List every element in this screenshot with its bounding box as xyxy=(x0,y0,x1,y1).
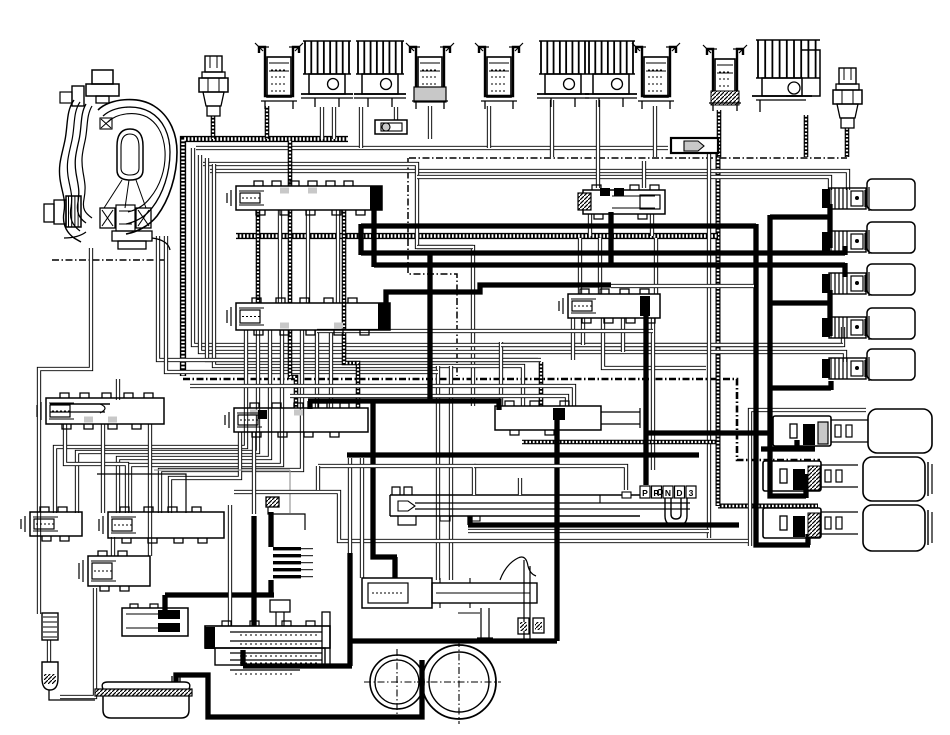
svg-text:P: P xyxy=(642,488,648,498)
wire VB6 pressure regulator stubs xyxy=(642,161,646,188)
valve VB10 with black ports xyxy=(106,514,188,636)
wire bold governor box left x350 xyxy=(347,553,352,666)
wire bold manual valve to V2 xyxy=(646,430,770,435)
wire bold VB2 cap to regulator xyxy=(386,285,611,306)
wire bold V2 solenoid supply xyxy=(770,215,806,498)
wire bold governor box top y455 xyxy=(347,452,699,457)
valve VB2 xyxy=(227,298,390,335)
solenoid G xyxy=(537,41,589,107)
torque converter xyxy=(44,70,177,250)
wire long pipe y331 xyxy=(317,329,653,333)
wire governor needle xyxy=(477,608,493,638)
wire left nest vertical 3 hatched drop to valve xyxy=(207,158,538,360)
clutch pack xyxy=(273,547,301,550)
wire bold solenoid chain 3-4 xyxy=(827,290,832,336)
manual valve detent xyxy=(665,498,687,526)
pump large circle xyxy=(422,645,496,719)
hatched orifice xyxy=(266,497,279,507)
wire hatched supply bus top xyxy=(183,139,348,376)
wire torque converter cooler pipe 1 xyxy=(158,236,541,360)
wire valve E stem xyxy=(428,106,432,139)
wire solenoid D stems to check valve box xyxy=(359,107,363,148)
wire pipe top nest 1 xyxy=(196,146,668,150)
valve VB right-mid xyxy=(495,401,640,435)
wire bold solenoid chain 1-2 xyxy=(827,204,832,248)
shift solenoid 1 xyxy=(822,179,915,211)
wire pipe top nest 2 to solenoid feed u1 xyxy=(210,171,848,190)
wire staircase VB2 to lower left 3 xyxy=(118,330,270,513)
accumulator 2 valve xyxy=(763,461,858,491)
left capsule 1 xyxy=(42,613,58,640)
valve VB5 xyxy=(559,289,660,323)
wire staircase VB2 to lower left 2 xyxy=(77,330,258,513)
valve VB3 manual xyxy=(37,393,164,429)
valve VB9 xyxy=(79,551,150,591)
wire bold drop x254 to rear servo xyxy=(251,516,256,626)
shift solenoid 4 xyxy=(822,308,915,340)
valve J hatched xyxy=(703,45,747,111)
wire throttle lever lines xyxy=(234,492,748,541)
pressure switch A xyxy=(199,56,228,116)
wire bold governor box bottom xyxy=(351,638,557,643)
wire bold clutch feed y595 xyxy=(165,580,274,613)
solenoid H xyxy=(585,41,637,107)
wire VB9 to pan suction xyxy=(60,588,95,697)
wire gray orifice line 2 xyxy=(154,469,290,471)
wire bold VB5 drop to manual valve xyxy=(643,316,648,485)
wire VB4 to bottom left xyxy=(170,432,240,513)
wire pipes mid-lower right xyxy=(468,529,709,533)
accumulator 3 canister xyxy=(863,505,925,551)
throttle valve xyxy=(362,578,537,608)
pump small circle xyxy=(370,655,424,709)
wire switch A stem xyxy=(211,116,216,139)
wire bold suction line pan to pump xyxy=(176,660,422,717)
wire bold drop x373 to throttle valve xyxy=(373,403,397,578)
solenoid K large xyxy=(752,40,820,112)
wire bold under valve assembly xyxy=(243,650,352,666)
wire staircase VB2 to lower left 5 xyxy=(160,330,302,513)
servo assembly xyxy=(205,600,330,674)
wire hatched bus y236 xyxy=(236,233,718,239)
wire top solenoid G H I stems xyxy=(550,100,554,157)
left capsule 2 xyxy=(42,662,58,690)
governor xyxy=(458,557,544,642)
pressure switch L xyxy=(833,68,862,128)
wire hatched branch to accumulator 2 xyxy=(183,379,820,460)
svg-text:3: 3 xyxy=(689,488,694,498)
wire solenoid K stem xyxy=(804,115,809,157)
valve VB1 upper xyxy=(227,181,382,215)
wire capsule to pan xyxy=(49,690,95,700)
solenoid C xyxy=(301,41,353,107)
wire solenoid C legs xyxy=(320,107,324,139)
wire left capsule link xyxy=(47,640,51,662)
wire bold V1 to accumulator 3 xyxy=(756,224,810,545)
wire switch L stem xyxy=(845,128,850,157)
wire gray orifice line 1 xyxy=(97,474,186,513)
oil pan with filter xyxy=(95,676,192,718)
accumulator 2 canister xyxy=(863,457,925,501)
wire bold main line pressure y226 xyxy=(361,223,756,228)
check valve I xyxy=(632,43,680,109)
accumulator 1 canister xyxy=(868,409,932,453)
wire servo feed pipe x230 xyxy=(228,505,232,626)
wire dash-dot exhaust line top xyxy=(409,157,847,159)
valve VB8 xyxy=(99,507,224,543)
wire pipes to right-mid valve tops xyxy=(190,386,574,406)
svg-text:N: N xyxy=(665,488,671,498)
svg-text:D: D xyxy=(676,488,682,498)
accumulator 1 valve xyxy=(773,416,868,446)
wire bold line y401 xyxy=(308,401,499,410)
wire branch down to throttle valve 1 xyxy=(436,366,440,580)
wire valve VB1 to VB2 connectors xyxy=(256,210,261,303)
wire bold y401 corner x557 down xyxy=(554,420,559,641)
wire bold accumulator 1 feed xyxy=(761,440,815,449)
wire VB right-mid feed from top xyxy=(499,342,503,406)
wire valve B stem xyxy=(265,106,270,139)
accumulator 3 valve xyxy=(763,508,858,538)
wire manual valve VB3 ports down xyxy=(65,424,127,513)
wire hatched VB1 drop to VB4 xyxy=(288,141,293,186)
selector labels P R N D 3 xyxy=(640,486,696,498)
wire staircase VB2 to lower left 4 xyxy=(130,330,282,513)
check valve F xyxy=(475,43,523,109)
shift solenoid 2 xyxy=(822,222,915,254)
wire VB3 inlet from converter xyxy=(116,379,120,400)
wire VB9 feed xyxy=(111,537,115,556)
check valve box 2 xyxy=(671,138,718,153)
wire bold TV to y525 xyxy=(468,516,739,525)
wire pipe y246 VB-right feed xyxy=(417,245,473,249)
wire valve F stem xyxy=(487,106,491,148)
wire staircase VB2 to lower left 1 xyxy=(55,330,246,513)
solenoid D xyxy=(354,41,406,107)
wire dash-dot hatched y442 xyxy=(522,440,716,445)
manual valve long body xyxy=(318,466,690,525)
valve VB6 pressure regulator xyxy=(578,185,665,219)
accumulator valve E gray xyxy=(406,43,454,109)
wire torque converter drain left column xyxy=(39,248,91,614)
wire left nest vertical 2 to solenoid 5 coil xyxy=(200,155,845,362)
valve VB4 xyxy=(225,403,368,437)
wire solenoid J stem xyxy=(717,110,722,157)
wire VB2 to VB4 connectors xyxy=(315,330,319,408)
wire bold drop x430 xyxy=(427,251,432,403)
wire bold line A y253 xyxy=(361,224,845,255)
wire solenoid feed pipe u4 horizontal xyxy=(501,343,843,347)
wire dash-dot converter baseline xyxy=(52,259,168,261)
wire bold solenoid 5 elbow xyxy=(828,381,833,390)
wire hatched branch to accumulator 3 xyxy=(718,504,818,509)
wire bold VB1 cap drop xyxy=(371,193,376,267)
wire left nest vertical 4 xyxy=(214,164,523,406)
wire left nest vertical 1 to solenoid 4 coil xyxy=(193,148,843,345)
wire hatched converter-feed vertical from check valve xyxy=(716,154,721,506)
wire accumulator1 surround xyxy=(750,410,866,546)
wire bold clutch pack feed xyxy=(268,512,273,547)
valve VB7 small left xyxy=(21,507,82,541)
wire VB5 drains down xyxy=(571,318,575,360)
wire bold line B y265 xyxy=(374,263,845,277)
wire bold VB6 drop xyxy=(608,212,613,265)
check valve B xyxy=(255,43,303,109)
shift solenoid 5 xyxy=(822,349,915,381)
check valve box 1 xyxy=(375,120,407,134)
wire torque converter cooler pipe 2 xyxy=(166,236,438,372)
shift solenoid 3 xyxy=(822,264,915,296)
wire VB5 tops to hatched bus xyxy=(578,238,582,294)
wire branch down to throttle valve 2 xyxy=(449,366,453,580)
